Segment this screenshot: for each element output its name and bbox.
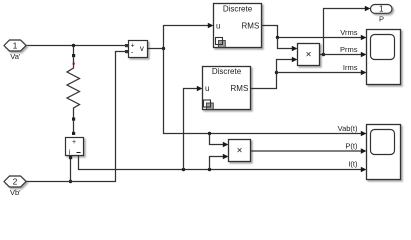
node I branch to RMS2: [182, 168, 185, 171]
product block X2 (v x i): [229, 140, 251, 162]
svg-text:×: ×: [237, 145, 243, 156]
wire Prms to scope1: [324, 54, 362, 56]
node Vab branch: [208, 132, 211, 135]
svg-text:P(t): P(t): [345, 141, 358, 150]
discrete RMS block U1: [214, 4, 262, 48]
wire product1 output to Prms junction: [320, 54, 324, 56]
svg-text:RMS: RMS: [231, 84, 249, 93]
svg-text:Vab(t): Vab(t): [338, 124, 358, 133]
wire Irms to scope1: [277, 72, 362, 74]
wire Vrms junction down to product1 input a: [278, 38, 293, 49]
wire product2 output P(t) to scope2: [251, 150, 362, 152]
wire I branch up to RMS2 input: [184, 89, 198, 170]
wire Prms junction up to outport P: [324, 9, 366, 55]
svg-text:Prms: Prms: [340, 45, 358, 54]
svg-text:Vb': Vb': [10, 188, 21, 197]
wire Irms junction up to product1 input b: [277, 60, 293, 73]
node on Vb wire: [69, 180, 72, 183]
svg-text:Discrete: Discrete: [223, 4, 253, 13]
wire CM1 bottom terminal down to Vb line: [70, 159, 72, 182]
svg-text:RMS: RMS: [242, 21, 260, 30]
current measurement CM1: [66, 132, 84, 159]
svg-text:I(t): I(t): [348, 159, 358, 168]
wire Vab branch to product2 input a: [210, 134, 224, 145]
node Prms: [322, 53, 325, 56]
svg-text:1: 1: [13, 41, 18, 51]
wire RMS2 output to Irms junction: [251, 73, 277, 89]
node Irms: [275, 71, 278, 74]
svg-text:u: u: [205, 84, 209, 93]
product block X1 (Vrms x Irms): [298, 44, 320, 66]
node Vrms: [276, 36, 279, 39]
wire Va' to voltage measurement +: [26, 45, 126, 47]
wire resistor bottom to current measurement top: [73, 121, 75, 132]
svg-text:Va': Va': [10, 52, 21, 61]
wire VM1 output to junction: [148, 48, 164, 50]
scope 2 (instantaneous signals): [367, 125, 401, 180]
inport 1 Va': [4, 40, 26, 61]
wire CM1 i output to I(t) line into scope2: [79, 156, 362, 170]
svg-text:×: ×: [306, 49, 312, 60]
svg-text:2: 2: [13, 177, 18, 187]
svg-text:Vrms: Vrms: [340, 28, 357, 37]
inport 2 Vb': [4, 176, 26, 197]
wire Vrms to scope1: [278, 37, 362, 39]
wire Vb' to voltage measurement - input: [26, 52, 126, 182]
svg-text:+: +: [131, 42, 135, 49]
node A junction on Va wire: [72, 44, 75, 47]
svg-text:+: +: [72, 139, 76, 146]
resistor R (series RLC branch): [67, 54, 80, 121]
node v junction: [162, 47, 165, 50]
svg-text:P: P: [379, 15, 384, 24]
wire I branch up to product2 input b: [210, 157, 224, 170]
wire RMS1 output to Vrms junction: [262, 26, 278, 38]
discrete RMS block U2: [203, 67, 251, 110]
svg-text:v: v: [140, 44, 144, 53]
outport 1 P: [371, 5, 393, 24]
wire node A down to resistor top terminal: [73, 46, 75, 55]
svg-text:Discrete: Discrete: [212, 67, 242, 76]
voltage measurement VM1: [125, 41, 148, 58]
wire v junction up to RMS1 input: [164, 26, 209, 49]
svg-text:Irms: Irms: [343, 63, 358, 72]
svg-text:1: 1: [379, 5, 384, 14]
svg-text:u: u: [216, 21, 220, 30]
wire v junction down to Vab line into scope2: [164, 49, 362, 134]
scope 1 (rms signals): [367, 30, 401, 85]
node I branch to product2: [208, 168, 211, 171]
